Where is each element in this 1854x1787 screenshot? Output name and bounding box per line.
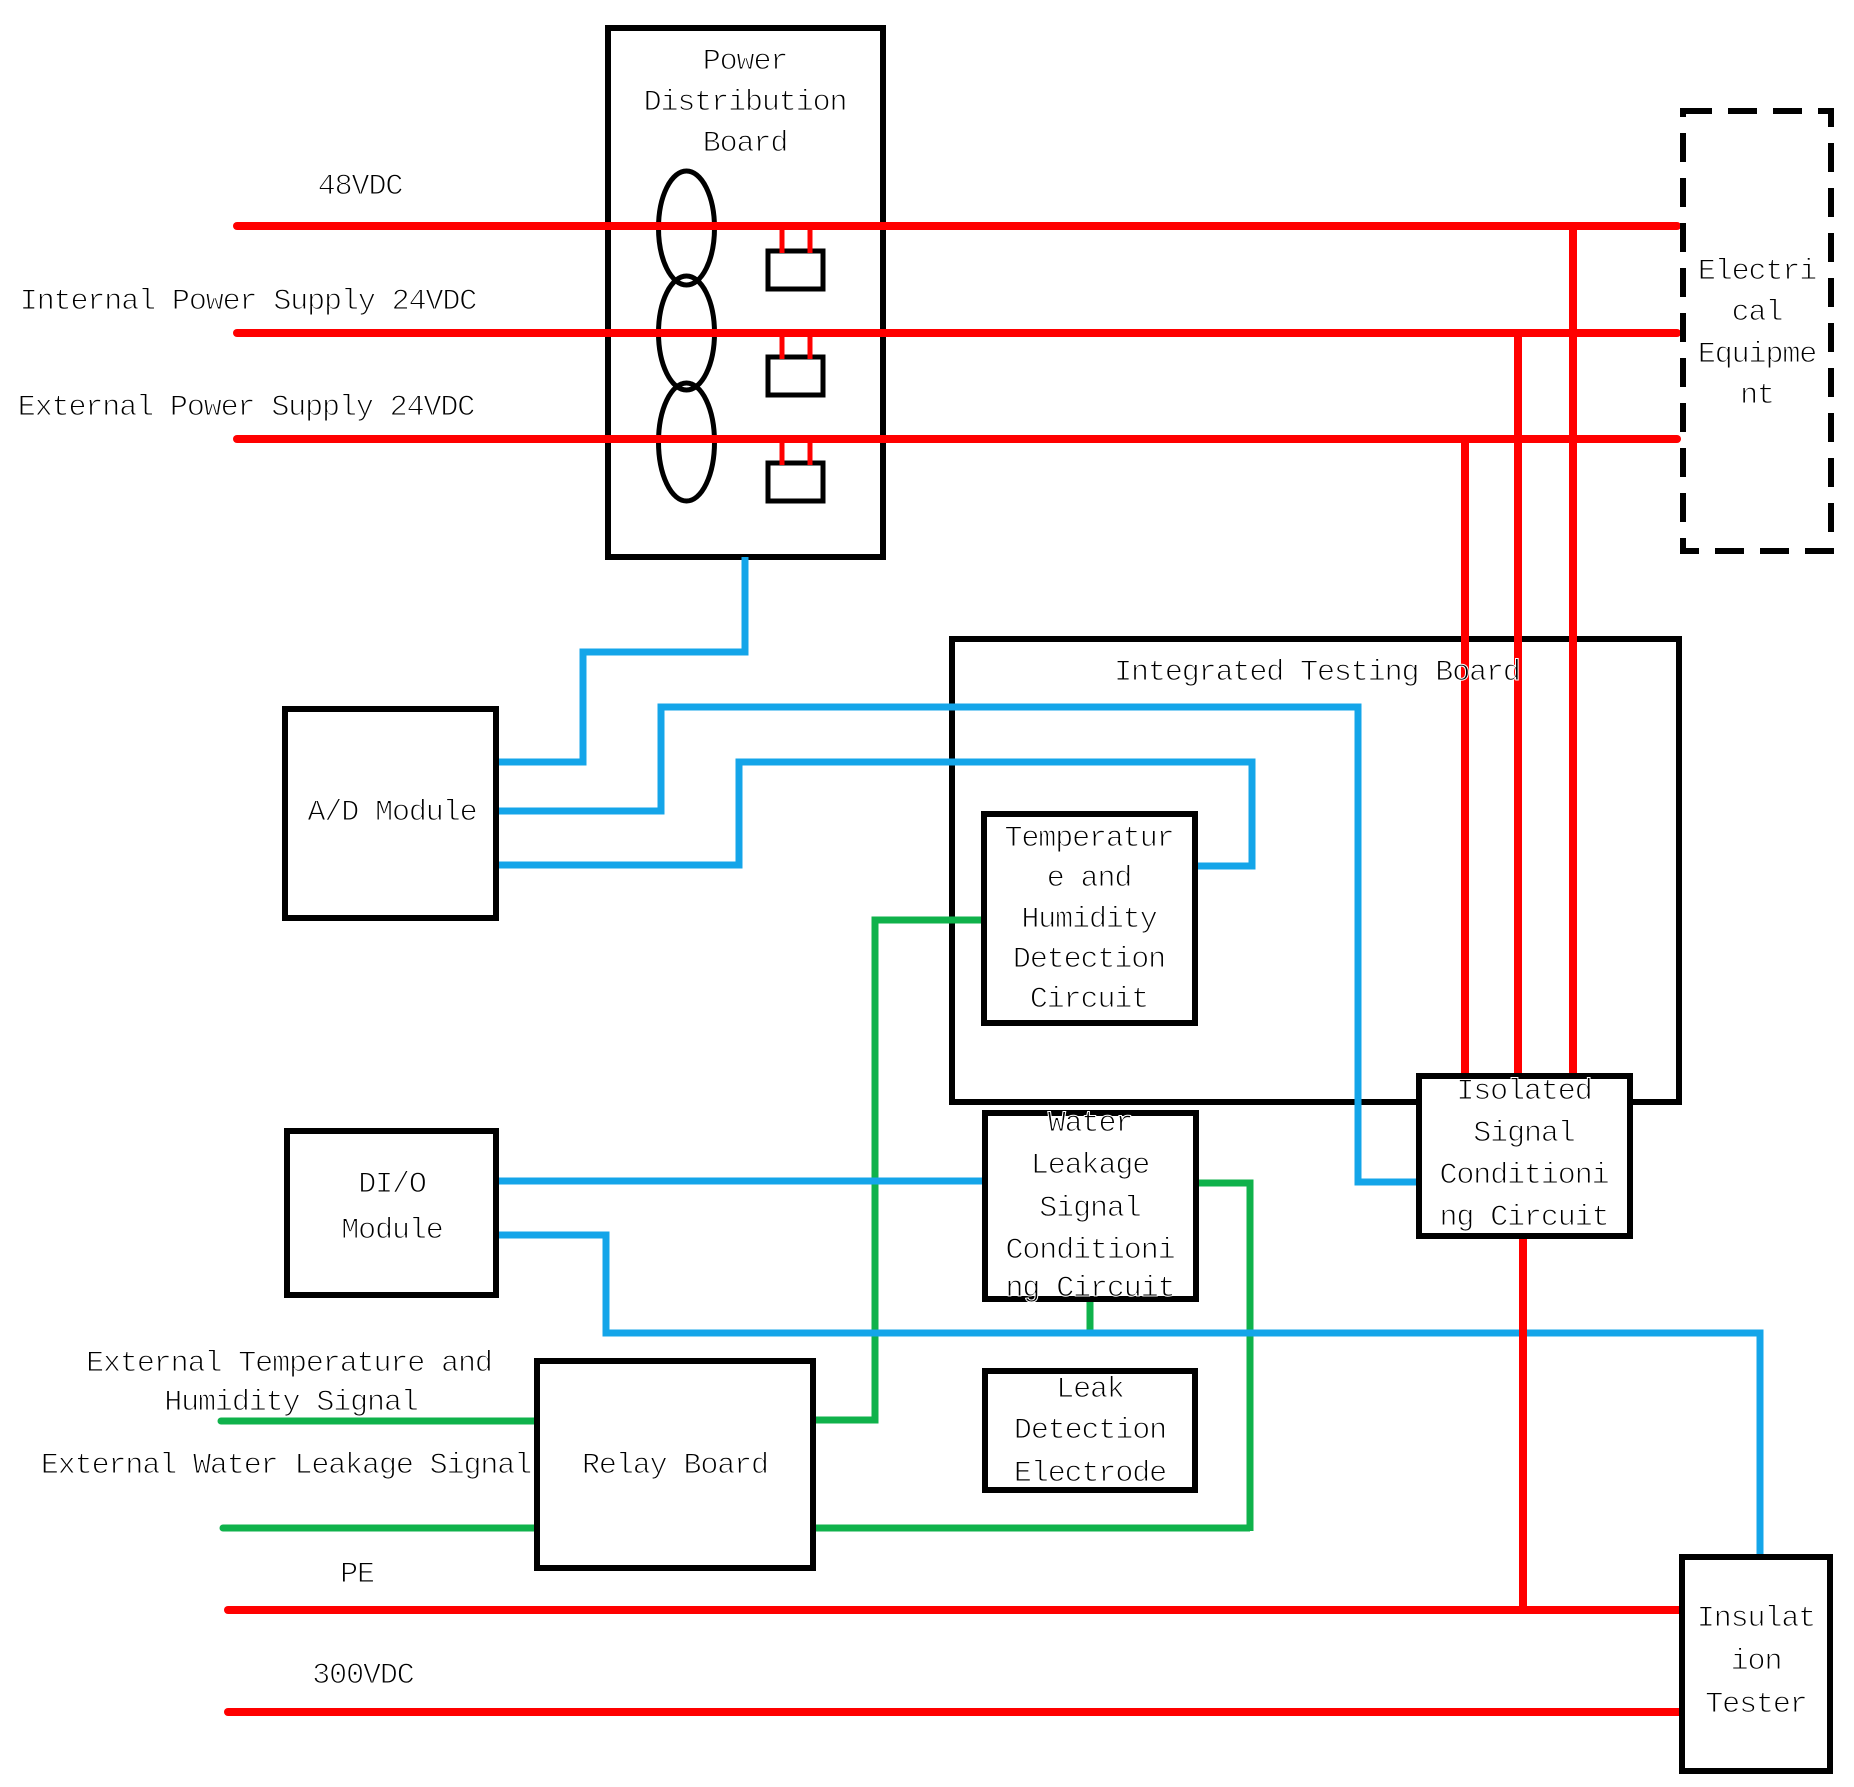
svg-text:ng Circuit: ng Circuit	[1439, 1201, 1608, 1235]
svg-text:Signal: Signal	[1473, 1117, 1575, 1151]
svg-text:Temperatur: Temperatur	[1004, 822, 1173, 856]
svg-text:A/D Module: A/D Module	[307, 796, 476, 830]
svg-text:PE: PE	[340, 1558, 374, 1592]
svg-text:Relay Board: Relay Board	[582, 1449, 768, 1483]
svg-text:nt: nt	[1740, 379, 1774, 413]
svg-text:Electri: Electri	[1698, 255, 1816, 289]
svg-text:Internal Power Supply 24VDC: Internal Power Supply 24VDC	[20, 285, 476, 319]
svg-text:Leak: Leak	[1056, 1373, 1124, 1407]
svg-text:Integrated Testing Board: Integrated Testing Board	[1114, 656, 1520, 690]
svg-text:Circuit: Circuit	[1030, 983, 1148, 1017]
svg-text:Conditioni: Conditioni	[1005, 1234, 1174, 1268]
svg-text:Isolated: Isolated	[1456, 1075, 1591, 1109]
svg-text:DI/O: DI/O	[358, 1168, 426, 1202]
svg-text:Board: Board	[703, 127, 788, 161]
svg-text:Signal: Signal	[1039, 1192, 1141, 1226]
svg-text:ng Circuit: ng Circuit	[1005, 1272, 1174, 1306]
svg-text:Detection: Detection	[1014, 1414, 1166, 1448]
svg-text:Detection: Detection	[1013, 943, 1165, 977]
svg-text:Humidity: Humidity	[1021, 903, 1156, 937]
svg-text:Module: Module	[341, 1214, 443, 1248]
svg-text:External Temperature and: External Temperature and	[86, 1347, 492, 1381]
svg-text:Power: Power	[703, 45, 788, 79]
svg-text:300VDC: 300VDC	[312, 1659, 414, 1693]
svg-text:Conditioni: Conditioni	[1439, 1159, 1608, 1193]
svg-text:Insulat: Insulat	[1697, 1602, 1815, 1636]
svg-text:ion: ion	[1731, 1645, 1782, 1679]
svg-text:cal: cal	[1732, 296, 1783, 330]
svg-text:Leakage: Leakage	[1031, 1149, 1149, 1183]
svg-text:External Power Supply 24VDC: External Power Supply 24VDC	[18, 391, 474, 425]
svg-text:Water: Water	[1048, 1107, 1133, 1141]
svg-text:Equipme: Equipme	[1698, 338, 1816, 372]
svg-text:External Water Leakage Signal: External Water Leakage Signal	[41, 1449, 531, 1483]
svg-text:48VDC: 48VDC	[318, 170, 403, 204]
svg-text:Humidity Signal: Humidity Signal	[164, 1386, 418, 1420]
svg-text:e and: e and	[1047, 862, 1132, 896]
svg-text:Distribution: Distribution	[644, 86, 847, 120]
svg-text:Tester: Tester	[1705, 1688, 1806, 1722]
svg-text:Electrode: Electrode	[1014, 1457, 1166, 1491]
